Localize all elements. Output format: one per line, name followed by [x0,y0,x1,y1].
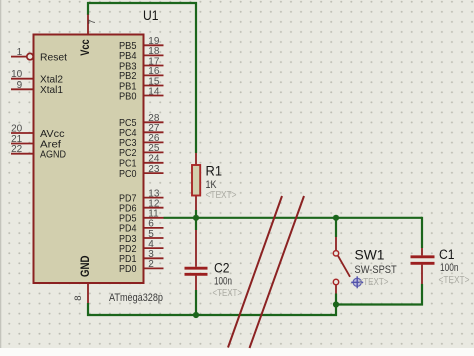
svg-text:2: 2 [148,259,154,270]
svg-text:14: 14 [148,86,160,97]
svg-text:Vcc: Vcc [80,39,92,56]
svg-text:Xtal1: Xtal1 [40,84,63,96]
svg-text:GND: GND [78,255,92,277]
svg-text:SW-SPST: SW-SPST [355,264,397,276]
svg-text:U1: U1 [143,8,159,23]
svg-text:<TEXT>: <TEXT> [206,189,237,201]
svg-text:Reset: Reset [40,51,67,63]
svg-text:25: 25 [148,143,160,154]
svg-text:PD0: PD0 [119,263,137,275]
svg-text:100n: 100n [440,262,459,274]
svg-text:23: 23 [148,164,160,175]
svg-text:R1: R1 [206,163,223,178]
svg-text:<TEXT>: <TEXT> [439,274,470,286]
svg-text:100n: 100n [214,276,232,288]
svg-text:C1: C1 [439,247,455,262]
svg-text:10: 10 [11,69,23,80]
svg-text:20: 20 [11,124,23,135]
svg-text:7: 7 [87,19,98,24]
svg-text:ATmega328p: ATmega328p [109,292,163,304]
svg-text:PB0: PB0 [119,90,137,102]
svg-text:AGND: AGND [40,149,66,161]
svg-text:1: 1 [17,47,23,58]
svg-text:9: 9 [17,80,23,91]
svg-text:22: 22 [11,144,23,155]
svg-text:<TEXT>: <TEXT> [359,276,389,288]
svg-text:8: 8 [73,296,84,301]
svg-text:C2: C2 [214,260,230,275]
svg-text:PC0: PC0 [119,168,137,180]
svg-text:SW1: SW1 [355,248,385,263]
svg-text:<TEXT>: <TEXT> [213,287,243,299]
